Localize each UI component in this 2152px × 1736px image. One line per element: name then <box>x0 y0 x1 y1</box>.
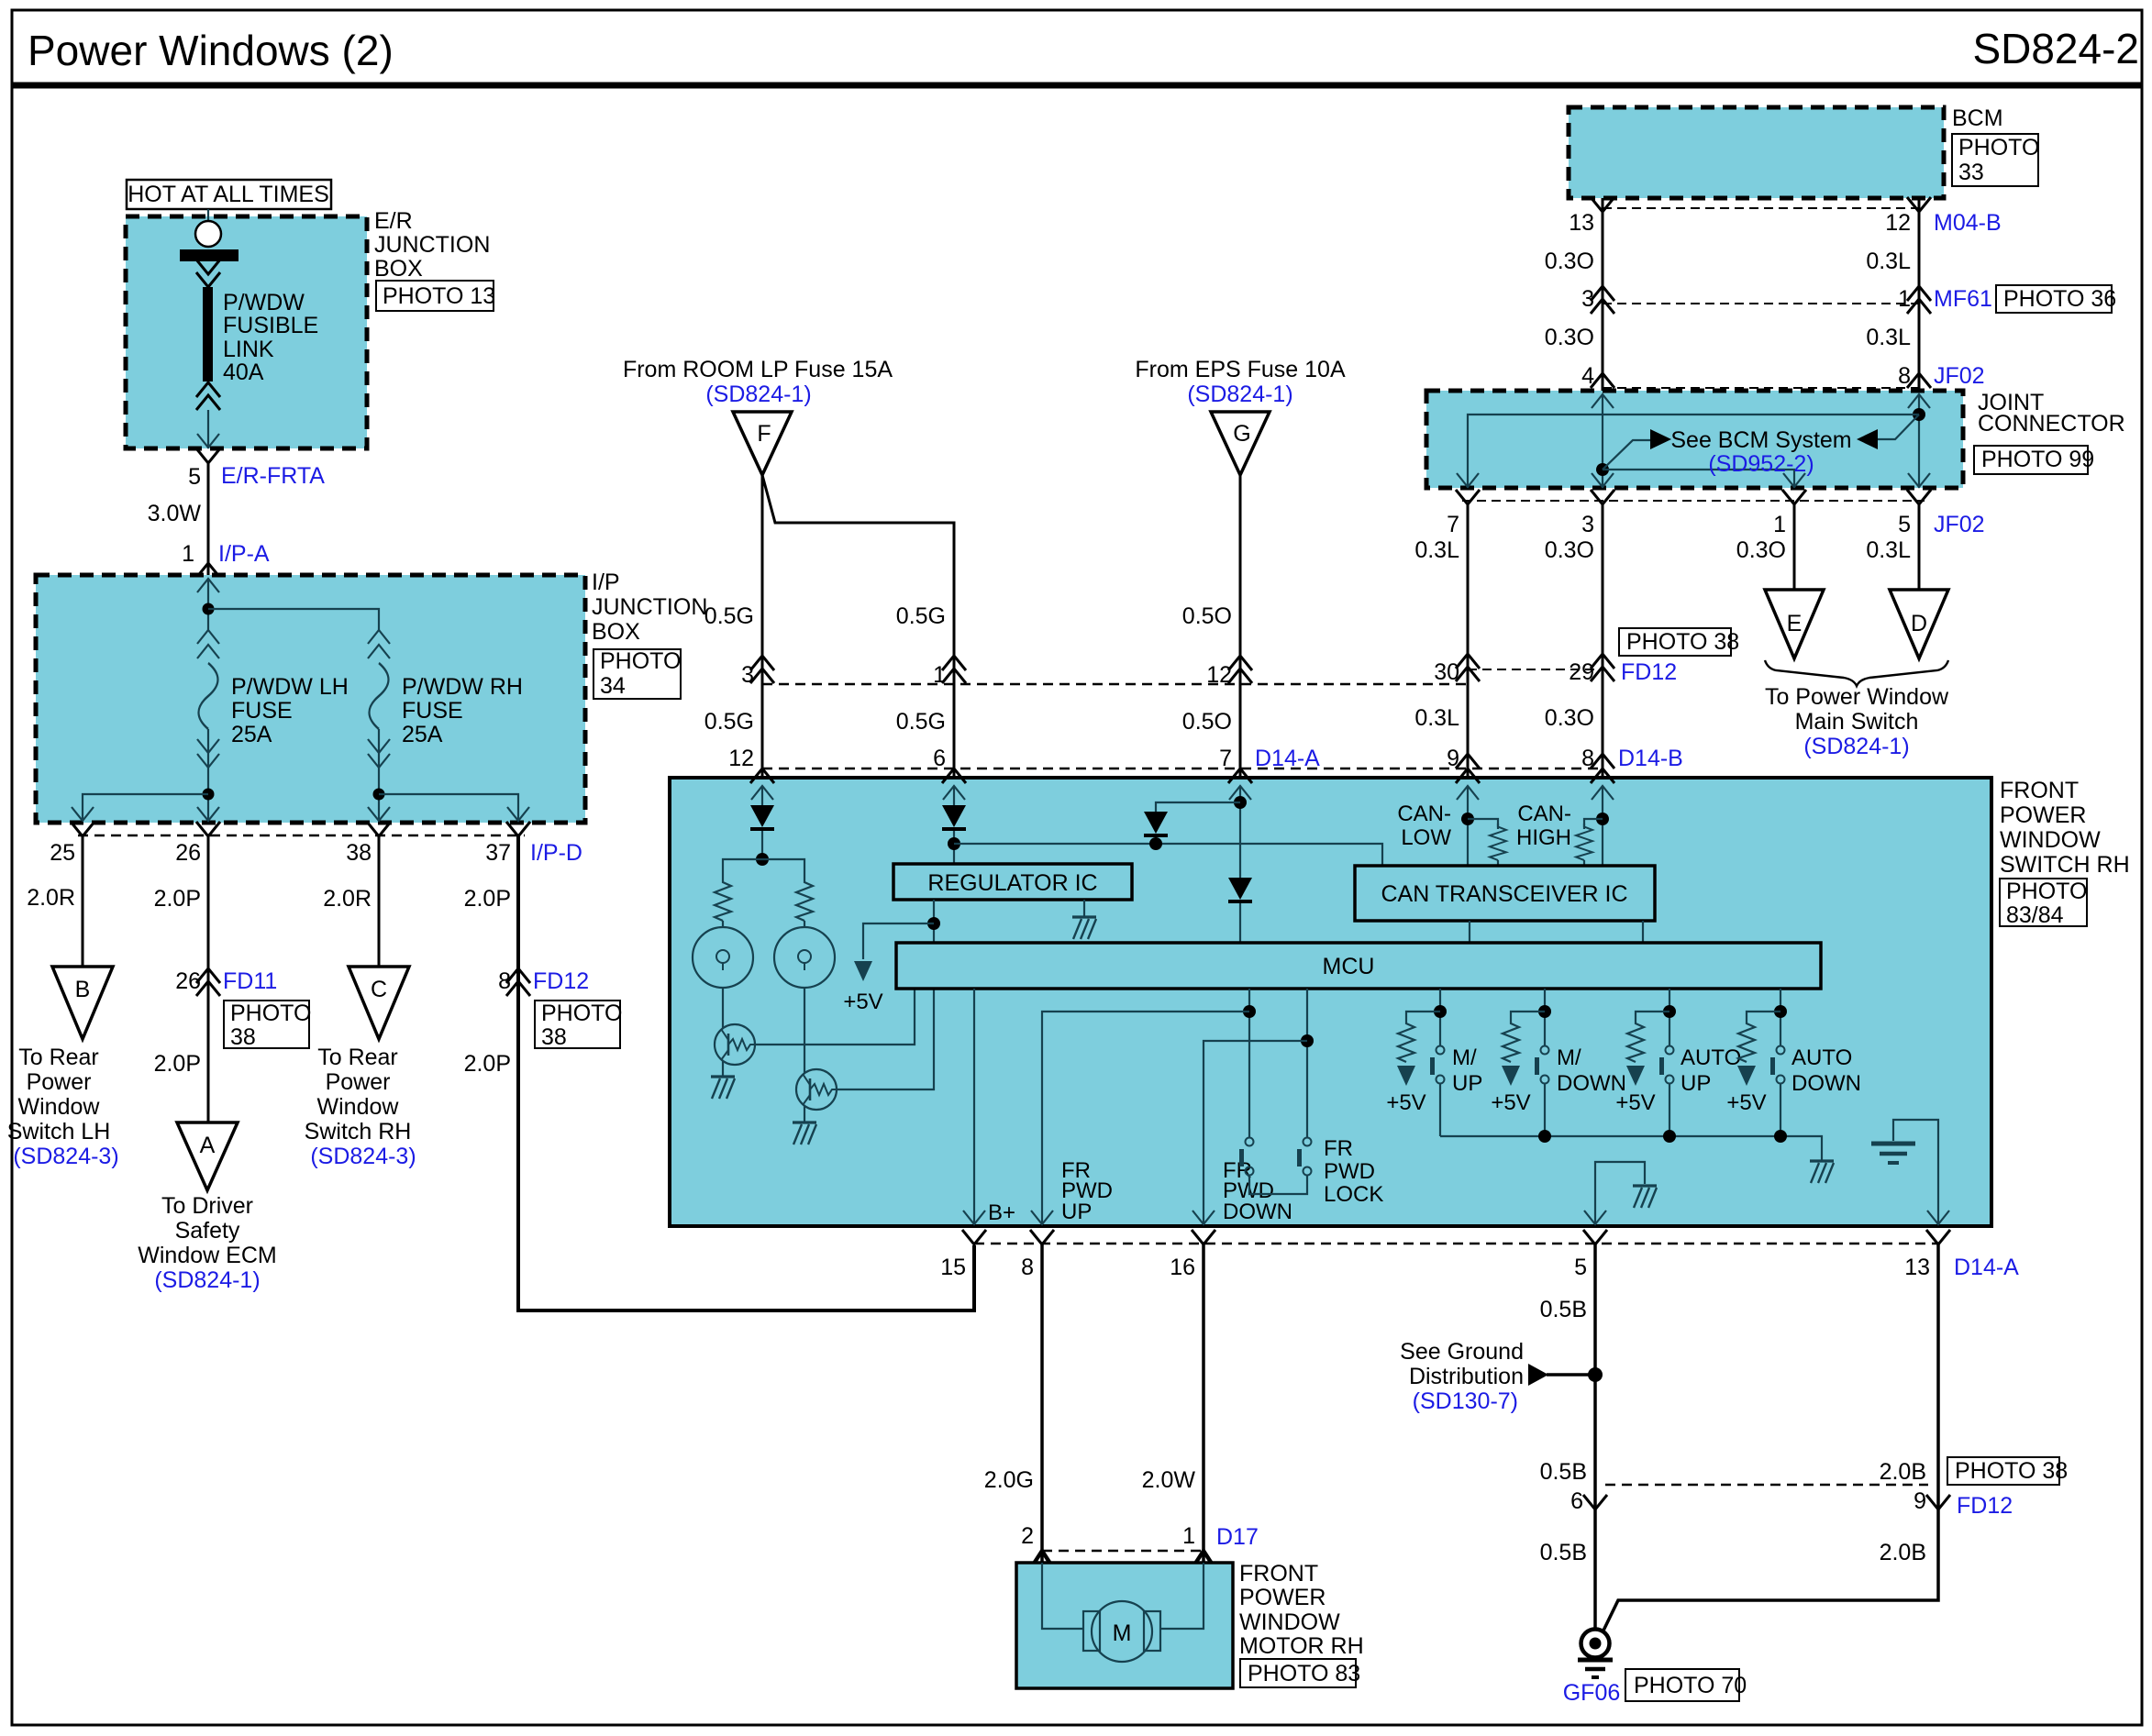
svg-text:M04-B: M04-B <box>1934 210 2002 236</box>
connector 26 FD11 chevrons <box>196 968 220 996</box>
see ground callout arrow <box>1528 1364 1595 1386</box>
svg-text:83/84: 83/84 <box>2006 902 2064 928</box>
svg-text:Power: Power <box>326 1069 391 1095</box>
svg-text:1: 1 <box>1898 286 1911 312</box>
resistor AUTO UP pull <box>1627 1020 1644 1062</box>
CAN pin9 upper chevron <box>1456 754 1480 768</box>
pin 12 chevrons <box>1228 656 1252 683</box>
wire MCU to AUTO UP <box>1669 989 1670 1045</box>
wire to +5V arrow <box>863 923 934 959</box>
FD12 pin30 chevrons <box>1456 654 1480 681</box>
chevron inside joint connector pin4 <box>1592 394 1614 408</box>
I/P junction box <box>36 575 585 823</box>
FR PWD LOCK label <box>1324 1136 1383 1207</box>
wire Q1 base to MCU <box>755 989 915 1045</box>
pin numbers 3 1 <box>1581 286 1911 312</box>
wire branch to RH fuse <box>208 609 379 630</box>
pin 3 chevrons <box>750 656 774 683</box>
node D3 bus dot <box>1149 837 1162 850</box>
svg-text:CONNECTOR: CONNECTOR <box>1978 411 2125 437</box>
regulator IC U1 <box>893 864 1132 900</box>
svg-text:PHOTO 99: PHOTO 99 <box>1981 447 2094 472</box>
node dot on CAN-high wire <box>1596 463 1609 476</box>
wire pin5 down to ground <box>1593 1244 1597 1630</box>
switch group M/UP <box>1386 989 1482 1136</box>
PHOTO 83/84 box <box>2000 879 2087 928</box>
svg-text:0.3O: 0.3O <box>1545 537 1594 563</box>
node regulator feed dot <box>948 837 960 850</box>
wire MCU to M/UP <box>1439 989 1441 1045</box>
wire diode D1 to lamp node <box>761 831 763 859</box>
pin5 chevron <box>1583 1230 1607 1244</box>
svg-text:F: F <box>757 421 771 447</box>
bottom exit arrow pin15 <box>963 1211 985 1224</box>
pin numbers 30 29 <box>1434 659 1594 685</box>
PHOTO 83 box <box>1240 1659 1360 1687</box>
CAN-HIGH label <box>1516 802 1571 850</box>
bottom exit arrow pin8 <box>1031 1211 1053 1224</box>
svg-text:Safety: Safety <box>175 1218 240 1244</box>
svg-text:9: 9 <box>1914 1488 1926 1514</box>
svg-text:0.5G: 0.5G <box>704 709 754 735</box>
wire pin16 to motor <box>1202 1244 1205 1562</box>
diode D4 <box>1228 878 1252 903</box>
svg-text:FRONT: FRONT <box>1239 1561 1318 1587</box>
svg-text:E/R: E/R <box>374 208 413 234</box>
switch FR PWD LOCK 1 <box>1239 1138 1254 1176</box>
svg-text:34: 34 <box>600 673 626 699</box>
svg-text:E: E <box>1787 611 1803 636</box>
wire to pull resistor AUTO DOWN <box>1747 1012 1780 1020</box>
P/WDW RH fuse chevrons bottom <box>368 739 390 753</box>
svg-text:0.5G: 0.5G <box>704 603 754 629</box>
joint connector label <box>1978 390 2125 437</box>
PHOTO 70 box <box>1625 1669 1747 1701</box>
pin numbers 12 6 7 <box>728 746 1232 771</box>
switch M/UP <box>1430 1046 1445 1084</box>
connector C triangle <box>349 967 409 1039</box>
svg-text:25A: 25A <box>231 722 272 747</box>
wire into junction node <box>207 579 209 630</box>
wire regulator ground pin <box>1083 900 1085 917</box>
joint exit arrows <box>1457 473 1479 487</box>
svg-text:FD12: FD12 <box>1957 1493 2013 1519</box>
bottom dashed connector D14-A <box>974 1243 1938 1245</box>
LH fuse label <box>231 674 349 747</box>
pin 1 chevrons <box>942 656 966 683</box>
wire CAN-LOW termination branch <box>1468 819 1498 829</box>
svg-text:37: 37 <box>485 840 511 866</box>
P/WDW LH fuse 25A <box>199 663 218 729</box>
pin 38 chevron <box>367 822 391 836</box>
bottom exit arrow pin16 <box>1192 1211 1215 1224</box>
node bus dot AUTO DOWN <box>1774 1130 1787 1143</box>
svg-text:B: B <box>75 977 91 1002</box>
see BCM callout arrow right <box>1603 429 1671 470</box>
wire branch to diode D3 <box>1156 802 1240 812</box>
top entry chevrons pin8 <box>1591 768 1614 783</box>
wire F down <box>761 475 764 778</box>
wire to pull resistor M/DOWN <box>1511 1012 1545 1020</box>
pin 1 chevron <box>196 563 220 578</box>
wire to pull resistor M/UP <box>1406 1012 1440 1020</box>
svg-text:1: 1 <box>1182 1523 1195 1549</box>
wire pin5 ground lead <box>1595 1162 1645 1224</box>
node M/DOWN dot <box>1538 1005 1551 1018</box>
CAN pin8 upper chevron <box>1591 754 1614 768</box>
wire Q2 emitter to ground <box>804 1106 805 1122</box>
title separator line <box>12 83 2142 89</box>
svg-text:GF06: GF06 <box>1563 1680 1621 1706</box>
switch AUTO DOWN <box>1770 1046 1785 1084</box>
svg-text:26: 26 <box>175 968 201 994</box>
PHOTO 38 box (FD12 right) <box>1619 628 1739 656</box>
svg-text:0.5O: 0.5O <box>1182 709 1232 735</box>
transistor Q2 <box>796 1069 837 1110</box>
PHOTO 38 box bottom <box>1947 1457 2068 1485</box>
wire BCM pin12 down <box>1918 198 1921 391</box>
FR PWD UP label <box>1061 1158 1113 1224</box>
svg-text:5: 5 <box>1574 1255 1587 1280</box>
pin 13 chevron <box>1591 197 1614 212</box>
svg-text:FUSE: FUSE <box>402 698 463 724</box>
JF02 connector dashed top <box>1603 387 1919 389</box>
switch group AUTO UP <box>1615 989 1741 1136</box>
connector row dashed D14-A (pins 12 6 7) <box>762 768 1603 770</box>
D17 connector dashed <box>1042 1550 1204 1553</box>
pin numbers 9 8 D14-B <box>1447 746 1594 771</box>
svg-text:AUTO: AUTO <box>1791 1045 1852 1070</box>
bottom exit arrow pin5 <box>1584 1211 1606 1224</box>
P/WDW LH fuse chevrons top <box>197 630 219 644</box>
wire branch to pin 37 <box>379 794 518 819</box>
pin numbers 3 1 12 <box>741 662 1232 688</box>
destination text driver safety ECM <box>138 1193 276 1293</box>
svg-text:12: 12 <box>728 746 754 771</box>
svg-text:13: 13 <box>1904 1255 1930 1280</box>
svg-text:CAN-: CAN- <box>1397 802 1451 826</box>
+5V arrow AUTO UP <box>1626 1066 1645 1086</box>
svg-text:3: 3 <box>741 662 754 688</box>
switch RH label <box>2000 778 2130 878</box>
motor label <box>1239 1561 1364 1659</box>
svg-text:WINDOW: WINDOW <box>2000 827 2101 853</box>
svg-text:UP: UP <box>1681 1071 1711 1096</box>
svg-text:0.5B: 0.5B <box>1540 1459 1587 1485</box>
MF61 connector dashed <box>1603 303 1919 304</box>
destination text LH switch <box>7 1045 119 1169</box>
+5V arrow <box>854 961 872 981</box>
svg-text:26: 26 <box>175 840 201 866</box>
svg-text:1: 1 <box>1773 512 1786 537</box>
svg-text:Window: Window <box>18 1094 101 1120</box>
svg-text:PHOTO 38: PHOTO 38 <box>1626 629 1739 655</box>
transistor Q1 <box>715 1024 755 1065</box>
svg-text:To Driver: To Driver <box>161 1193 253 1219</box>
ground Q2 <box>793 1122 816 1144</box>
node FR PWD UP dot <box>1243 1005 1256 1018</box>
svg-text:WINDOW: WINDOW <box>1239 1609 1340 1635</box>
svg-text:3: 3 <box>1581 286 1594 312</box>
wire from HOT box into E/R box <box>207 209 209 232</box>
svg-text:To Power Window: To Power Window <box>1765 684 1949 710</box>
front power window motor RH box <box>1016 1563 1233 1688</box>
P/WDW LH fuse chevrons bottom <box>197 739 219 753</box>
svg-text:Switch LH: Switch LH <box>7 1119 111 1144</box>
svg-text:PHOTO: PHOTO <box>1958 135 2039 160</box>
svg-text:12: 12 <box>1885 210 1911 236</box>
wire pin8 to motor <box>1040 1244 1044 1562</box>
svg-text:7: 7 <box>1219 746 1232 771</box>
svg-text:Window ECM: Window ECM <box>138 1243 276 1268</box>
svg-text:To Rear: To Rear <box>317 1045 398 1070</box>
svg-text:(SD952-2): (SD952-2) <box>1708 451 1814 477</box>
svg-text:0.3L: 0.3L <box>1866 325 1911 350</box>
lamp L1 <box>693 927 753 988</box>
wire R1 to lamp L1 <box>722 921 724 927</box>
svg-text:AUTO: AUTO <box>1681 1045 1741 1070</box>
svg-text:DOWN: DOWN <box>1791 1071 1861 1096</box>
pin 5 chevron <box>196 448 220 463</box>
chevron inside joint connector pin8 <box>1908 394 1930 408</box>
wire F branch to pin 1 <box>762 475 954 778</box>
wire pin13 to pin9 <box>1936 1244 1940 1509</box>
wire inside joint: pin4 through <box>1602 394 1603 488</box>
svg-text:(SD824-1): (SD824-1) <box>154 1267 260 1293</box>
brace under E and D <box>1765 660 1948 686</box>
node junction dot <box>203 603 215 615</box>
svg-text:30: 30 <box>1434 659 1459 685</box>
pin 12 chevron <box>1907 197 1931 212</box>
svg-text:+5V: +5V <box>1726 1090 1766 1115</box>
wire motor feed left <box>1042 1563 1084 1629</box>
E/R junction box label <box>374 208 490 282</box>
svg-text:5: 5 <box>1898 512 1911 537</box>
JF02 bottom dashed <box>1462 500 1925 502</box>
resistor CAN-LOW termination <box>1490 824 1506 860</box>
svg-text:2: 2 <box>1021 1523 1034 1549</box>
svg-text:2.0R: 2.0R <box>27 885 75 911</box>
wire pin7 to CAN-LOW column <box>1467 504 1470 778</box>
svg-text:D14-A: D14-A <box>1954 1255 2019 1280</box>
svg-text:Power Windows (2): Power Windows (2) <box>28 27 394 74</box>
svg-text:BOX: BOX <box>592 619 640 645</box>
svg-text:See Ground: See Ground <box>1400 1339 1524 1365</box>
wire transceiver to MCU left <box>1469 921 1470 943</box>
wire FR PWD UP to pin8 <box>1042 1012 1249 1224</box>
resistor AUTO DOWN pull <box>1738 1020 1755 1062</box>
svg-text:2.0P: 2.0P <box>464 886 511 912</box>
svg-text:13: 13 <box>1569 210 1594 236</box>
wire D4 to MCU <box>1239 903 1241 943</box>
wire pin26 down <box>207 836 210 1122</box>
wire to pull resistor AUTO UP <box>1636 1012 1669 1020</box>
resistor CAN-HIGH termination <box>1576 824 1592 860</box>
resistor R1 <box>715 879 731 921</box>
wire labels 2.0R 2.0P 2.0R 2.0P <box>27 885 511 912</box>
wire G down <box>1239 475 1242 778</box>
pin numbers 13 12 <box>1569 210 1911 236</box>
I/P junction box label <box>592 569 707 645</box>
joint connector box <box>1426 391 1963 488</box>
svg-text:0.5O: 0.5O <box>1182 603 1232 629</box>
svg-text:SWITCH RH: SWITCH RH <box>2000 852 2130 878</box>
pin 26 chevron <box>196 822 220 836</box>
svg-text:+5V: +5V <box>1615 1090 1655 1115</box>
wire inside joint: pin8 through <box>1918 394 1920 488</box>
wire FR PWD DOWN to pin16 <box>1204 1041 1307 1224</box>
node lamp branch dot <box>756 853 769 866</box>
svg-text:D17: D17 <box>1216 1524 1259 1550</box>
svg-text:+5V: +5V <box>1491 1090 1530 1115</box>
svg-text:(SD824-1): (SD824-1) <box>1187 381 1292 407</box>
wire motor feed right <box>1159 1563 1204 1629</box>
svg-text:PHOTO: PHOTO <box>230 1001 311 1026</box>
svg-text:BCM: BCM <box>1952 105 2003 131</box>
+5V arrow M/DOWN <box>1502 1066 1520 1086</box>
svg-text:(SD824-1): (SD824-1) <box>705 381 811 407</box>
svg-text:+5V: +5V <box>1386 1090 1425 1115</box>
svg-text:A: A <box>200 1133 216 1158</box>
pin numbers 25 26 38 37 <box>50 840 511 866</box>
lamp L2 <box>774 927 835 988</box>
wire MCU to M/DOWN <box>1544 989 1546 1045</box>
svg-text:Main Switch: Main Switch <box>1795 709 1919 735</box>
pin numbers 4 8 <box>1581 363 1911 389</box>
svg-text:0.3L: 0.3L <box>1414 705 1459 731</box>
fusible link label <box>223 290 318 385</box>
svg-text:25A: 25A <box>402 722 443 747</box>
svg-text:(SD824-1): (SD824-1) <box>1803 734 1909 759</box>
svg-text:2.0G: 2.0G <box>984 1467 1034 1493</box>
svg-text:0.5G: 0.5G <box>896 709 946 735</box>
svg-text:0.3O: 0.3O <box>1545 325 1594 350</box>
svg-text:2.0P: 2.0P <box>154 1051 201 1077</box>
wire pin3 to CAN-HIGH column <box>1602 504 1604 778</box>
svg-text:PHOTO 13: PHOTO 13 <box>383 283 495 309</box>
svg-text:CAN TRANSCEIVER IC: CAN TRANSCEIVER IC <box>1381 881 1627 907</box>
wire labels 0.3O 0.3L <box>1545 249 1911 274</box>
pin 26 exit arrow <box>197 807 219 821</box>
svg-text:PHOTO: PHOTO <box>2006 879 2087 904</box>
BCM box <box>1569 107 1944 198</box>
svg-text:M/: M/ <box>1557 1045 1581 1070</box>
wire bus to CAN transceiver supply <box>954 844 1382 866</box>
node AUTO DOWN dot <box>1774 1005 1787 1018</box>
svg-text:MOTOR RH: MOTOR RH <box>1239 1633 1364 1659</box>
svg-text:FD12: FD12 <box>1621 659 1677 685</box>
pin6 chevron <box>1583 1495 1607 1509</box>
wire regulator output <box>933 900 935 943</box>
svg-text:Distribution: Distribution <box>1409 1364 1524 1389</box>
wire Q1 emitter to ground <box>722 1061 724 1077</box>
svg-text:0.3L: 0.3L <box>1414 537 1459 563</box>
bottom exit arrow pin13 <box>1927 1211 1949 1224</box>
pin9 chevron <box>1926 1495 1950 1509</box>
ground GF06 ring <box>1578 1630 1613 1678</box>
svg-text:D14-B: D14-B <box>1618 746 1683 771</box>
connector F triangle <box>733 412 792 475</box>
node +5V dot <box>927 917 940 930</box>
PHOTO 38 box (FD12) <box>535 1001 622 1050</box>
pin13 chevron <box>1926 1230 1950 1244</box>
CAN-HIGH wire <box>1602 786 1603 866</box>
svg-text:0.3L: 0.3L <box>1866 249 1911 274</box>
fusible link bus bar <box>180 249 238 261</box>
svg-text:See BCM System: See BCM System <box>1670 427 1851 453</box>
node bus dot AUTO UP <box>1663 1130 1676 1143</box>
node bus dot M/DOWN <box>1538 1130 1551 1143</box>
wire branch to pin 7 (CAN-low) <box>1468 415 1919 488</box>
node pin7 dot <box>1234 796 1247 809</box>
svg-text:JF02: JF02 <box>1934 512 1985 537</box>
wire labels 0.5G 0.5G 0.5O row1 <box>704 709 1232 735</box>
node ground distribution dot <box>1588 1367 1603 1382</box>
svg-text:PHOTO: PHOTO <box>600 648 681 674</box>
switch M/DOWN <box>1535 1046 1549 1084</box>
wire labels 0.3L 0.3O 0.3O 0.3L <box>1414 537 1911 563</box>
wire RH fuse to node <box>378 729 380 819</box>
svg-text:FR: FR <box>1324 1136 1353 1161</box>
svg-text:FRONT: FRONT <box>2000 778 2079 803</box>
svg-text:1: 1 <box>182 541 194 567</box>
ground switch bus <box>1810 1161 1834 1183</box>
wire pin9 to ground ring <box>1603 1509 1938 1632</box>
resistor M/DOWN pull <box>1503 1020 1519 1062</box>
svg-text:0.5G: 0.5G <box>896 603 946 629</box>
svg-text:2.0W: 2.0W <box>1142 1467 1196 1493</box>
svg-text:FD11: FD11 <box>223 968 277 994</box>
pin numbers 7 3 1 5 <box>1447 512 1911 537</box>
svg-text:P/WDW: P/WDW <box>223 290 305 315</box>
wire BCM pin13 down <box>1602 198 1604 391</box>
JF02 pin8 chevron <box>1907 373 1931 388</box>
wire branch to lamp resistors <box>723 859 804 879</box>
node dot on pin8 wire <box>1913 408 1925 421</box>
destination text power window main switch <box>1765 684 1949 759</box>
wire branch to pin 25 <box>83 794 208 819</box>
node CAN-HIGH dot <box>1596 813 1609 825</box>
svg-text:FUSIBLE: FUSIBLE <box>223 313 318 338</box>
wire D3 to bus <box>1155 837 1157 844</box>
svg-text:0.5B: 0.5B <box>1540 1297 1587 1322</box>
pin 25 chevron <box>71 822 94 836</box>
svg-text:HIGH: HIGH <box>1516 825 1571 850</box>
svg-text:FUSE: FUSE <box>231 698 293 724</box>
see BCM callout arrow left <box>1857 415 1919 449</box>
svg-text:C: C <box>371 977 387 1002</box>
svg-text:Window: Window <box>317 1094 400 1120</box>
switch group M/DOWN <box>1491 989 1626 1136</box>
P/WDW fusible link 40A element <box>203 287 213 381</box>
destination text RH switch <box>305 1045 416 1169</box>
pin numbers 15 8 16 5 13 <box>940 1255 1930 1280</box>
+5V arrow M/UP <box>1397 1066 1415 1086</box>
PHOTO 13 box <box>376 281 495 311</box>
wire M/UP to bus <box>1439 1084 1441 1136</box>
PHOTO 38 box (FD11) <box>224 1001 311 1050</box>
connector row dashed (pins 3 1 12) <box>762 683 1468 686</box>
connector 8 FD12 chevrons <box>506 968 530 996</box>
svg-text:2.0B: 2.0B <box>1880 1540 1926 1565</box>
MF61 pin1 chevrons <box>1907 286 1931 314</box>
wire switch common bus <box>1440 1136 1822 1161</box>
switch FR PWD LOCK 2 <box>1297 1138 1312 1176</box>
FD12 connector dashed <box>1468 669 1603 670</box>
wire B+ pin15 <box>973 989 975 1224</box>
connector G triangle <box>1211 412 1270 475</box>
FR PWD DOWN label <box>1223 1158 1292 1224</box>
